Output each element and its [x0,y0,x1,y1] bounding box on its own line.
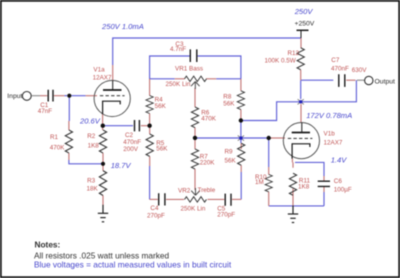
svg-text:56K: 56K [223,100,235,107]
svg-text:1.4V: 1.4V [331,156,348,165]
svg-text:C6: C6 [334,178,343,185]
svg-text:100K 0.5W: 100K 0.5W [265,58,296,65]
svg-text:Notes:: Notes: [35,239,61,249]
svg-text:R12: R12 [288,50,300,57]
svg-text:C7: C7 [331,57,340,64]
svg-text:250V 1.0mA: 250V 1.0mA [101,22,144,31]
svg-text:250K Lin: 250K Lin [181,205,206,212]
svg-text:R8: R8 [223,93,232,100]
svg-text:56K: 56K [156,145,168,152]
svg-text:Output: Output [375,78,396,85]
svg-text:C2: C2 [125,132,134,139]
svg-text:4.7nF: 4.7nF [170,46,186,53]
svg-text:18.7V: 18.7V [111,161,132,170]
svg-text:100µF: 100µF [334,186,352,193]
svg-text:56K: 56K [225,157,237,164]
svg-text:VR2: VR2 [178,188,191,195]
svg-text:56K: 56K [155,103,167,110]
svg-text:470K: 470K [50,144,66,151]
svg-text:630V: 630V [352,67,368,74]
svg-text:R1: R1 [50,134,59,141]
svg-text:270pF: 270pF [147,212,165,219]
svg-text:220K: 220K [200,160,216,167]
svg-text:12AX7: 12AX7 [324,140,343,147]
svg-text:1K8: 1K8 [298,184,310,191]
svg-text:V1a: V1a [93,67,105,74]
svg-text:12AX7: 12AX7 [93,75,112,82]
svg-text:270pF: 270pF [217,212,235,219]
svg-text:R9: R9 [225,148,234,155]
svg-text:V1b: V1b [324,130,336,137]
svg-text:250K Lin: 250K Lin [166,81,191,88]
svg-text:47nF: 47nF [38,108,53,115]
svg-text:R2: R2 [87,133,96,140]
svg-text:Input: Input [7,93,22,100]
svg-text:20.6V: 20.6V [79,116,101,125]
svg-text:Treble: Treble [198,187,216,194]
svg-text:470nF: 470nF [123,139,141,146]
svg-text:470K: 470K [201,115,217,122]
svg-text:250V: 250V [294,7,314,16]
svg-text:+250V: +250V [295,20,315,27]
svg-text:172V 0.78mA: 172V 0.78mA [306,111,352,120]
svg-text:C4: C4 [150,205,159,212]
svg-text:470nF: 470nF [331,66,349,73]
svg-text:200V: 200V [123,146,139,153]
svg-text:Blue voltages = actual measure: Blue voltages = actual measured values i… [34,259,232,269]
svg-text:VR1 Bass: VR1 Bass [175,66,203,73]
svg-text:1M: 1M [255,179,264,186]
svg-text:R3: R3 [87,178,96,185]
svg-text:1K8: 1K8 [88,142,100,149]
svg-text:18K: 18K [87,185,99,192]
